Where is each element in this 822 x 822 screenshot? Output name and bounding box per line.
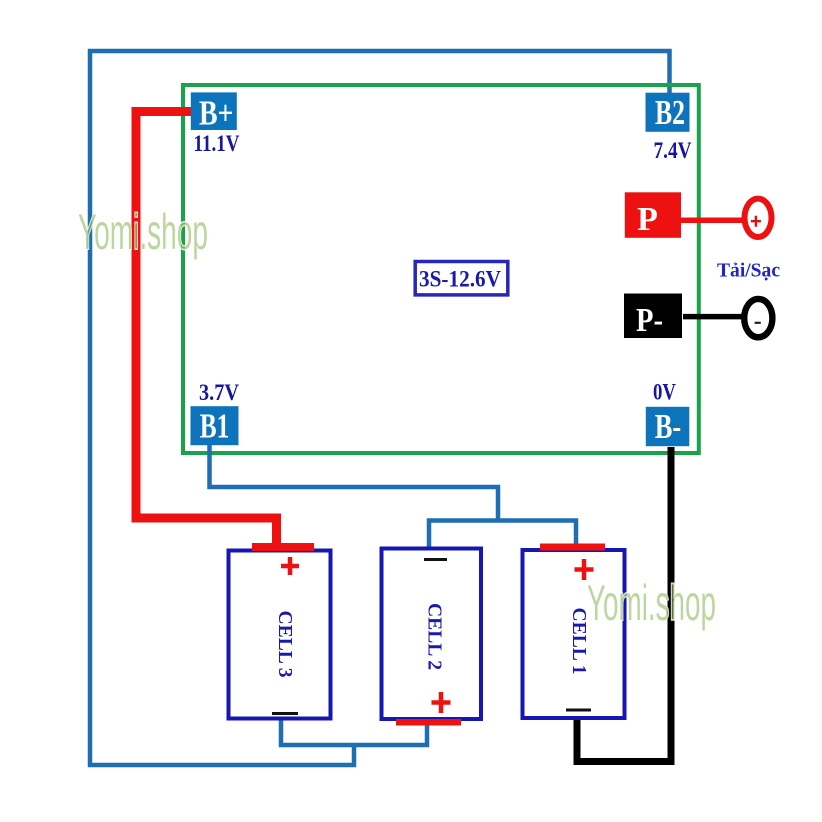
wire: blue from B1 down bbox=[210, 445, 499, 521]
battery CELL 2 bbox=[382, 549, 482, 720]
value box border bbox=[415, 262, 508, 295]
plus mark CELL 1 bbox=[575, 559, 594, 580]
svg-text:B1: B1 bbox=[200, 408, 230, 446]
pad B2 bbox=[646, 93, 690, 132]
svg-text:3.7V: 3.7V bbox=[199, 380, 239, 406]
pad box B- bbox=[646, 407, 690, 446]
terminal bar red CELL3 top bbox=[252, 543, 314, 551]
wire: red from B+ to CELL3 positive bbox=[136, 112, 277, 547]
svg-text:CELL 2: CELL 2 bbox=[424, 603, 446, 670]
terminal bar red CELL1 top bbox=[540, 544, 605, 551]
terminal minus circle (Tai/Sac -) bbox=[744, 299, 772, 337]
green BMS board outline bbox=[183, 85, 699, 453]
pad box B2 bbox=[646, 93, 690, 132]
pad box P bbox=[625, 192, 681, 238]
pad box P- bbox=[624, 294, 682, 339]
plus mark CELL 3 bbox=[281, 557, 299, 575]
minus terminal mark bbox=[755, 322, 761, 324]
label box 3S-12.6V bbox=[415, 262, 508, 295]
wire: red from P to plus terminal bbox=[681, 218, 745, 224]
battery body CELL 2 bbox=[382, 549, 482, 720]
wire: blue branch to CELL2 top and CELL1 top bbox=[429, 521, 576, 551]
svg-text:7.4V: 7.4V bbox=[654, 138, 692, 164]
pad P- (negative output) bbox=[624, 294, 682, 340]
svg-text:P: P bbox=[637, 201, 658, 238]
battery CELL 3 bbox=[229, 551, 331, 719]
minus terminal ring bbox=[744, 299, 772, 337]
minus mark CELL 3 bbox=[272, 712, 298, 715]
plus mark CELL 2 bbox=[432, 692, 451, 713]
svg-text:0V: 0V bbox=[653, 380, 676, 406]
pad box B+ bbox=[191, 92, 237, 130]
svg-text:Yomi.shop: Yomi.shop bbox=[587, 575, 716, 631]
terminal plus circle (Tai/Sac +) bbox=[745, 199, 772, 237]
svg-text:B-: B- bbox=[655, 408, 682, 446]
minus mark CELL 2 bbox=[424, 558, 447, 561]
wire: blue from CELL3 bottom to CELL2 bottom bbox=[281, 720, 427, 745]
svg-text:11.1V: 11.1V bbox=[194, 131, 240, 157]
plus terminal mark bbox=[751, 216, 761, 227]
svg-text:P-: P- bbox=[636, 302, 663, 339]
svg-text:Yomi.shop: Yomi.shop bbox=[78, 204, 208, 260]
svg-text:Tải/Sạc: Tải/Sạc bbox=[717, 261, 780, 282]
pad B1 bbox=[191, 406, 239, 445]
wire: black from P- to minus terminal bbox=[683, 314, 745, 320]
minus mark CELL 1 bbox=[566, 709, 591, 712]
svg-text:3S-12.6V: 3S-12.6V bbox=[419, 266, 501, 292]
battery body CELL 3 bbox=[229, 551, 331, 719]
battery CELL 1 bbox=[523, 550, 625, 718]
wire: outer blue loop from cell3/cell2 junction to B2 bbox=[90, 51, 670, 765]
svg-text:B+: B+ bbox=[199, 94, 234, 132]
battery body CELL 1 bbox=[523, 550, 625, 718]
pad P (positive output) bbox=[625, 192, 681, 238]
pad B+ bbox=[191, 92, 237, 132]
wire: black from B- to CELL1 bottom bbox=[577, 447, 671, 762]
pad box B1 bbox=[191, 406, 239, 445]
plus terminal ring bbox=[745, 199, 772, 237]
terminal bar red CELL2 bottom bbox=[396, 719, 461, 726]
svg-text:CELL 3: CELL 3 bbox=[274, 611, 296, 678]
pad B- bbox=[646, 407, 690, 446]
svg-text:B2: B2 bbox=[655, 94, 685, 132]
